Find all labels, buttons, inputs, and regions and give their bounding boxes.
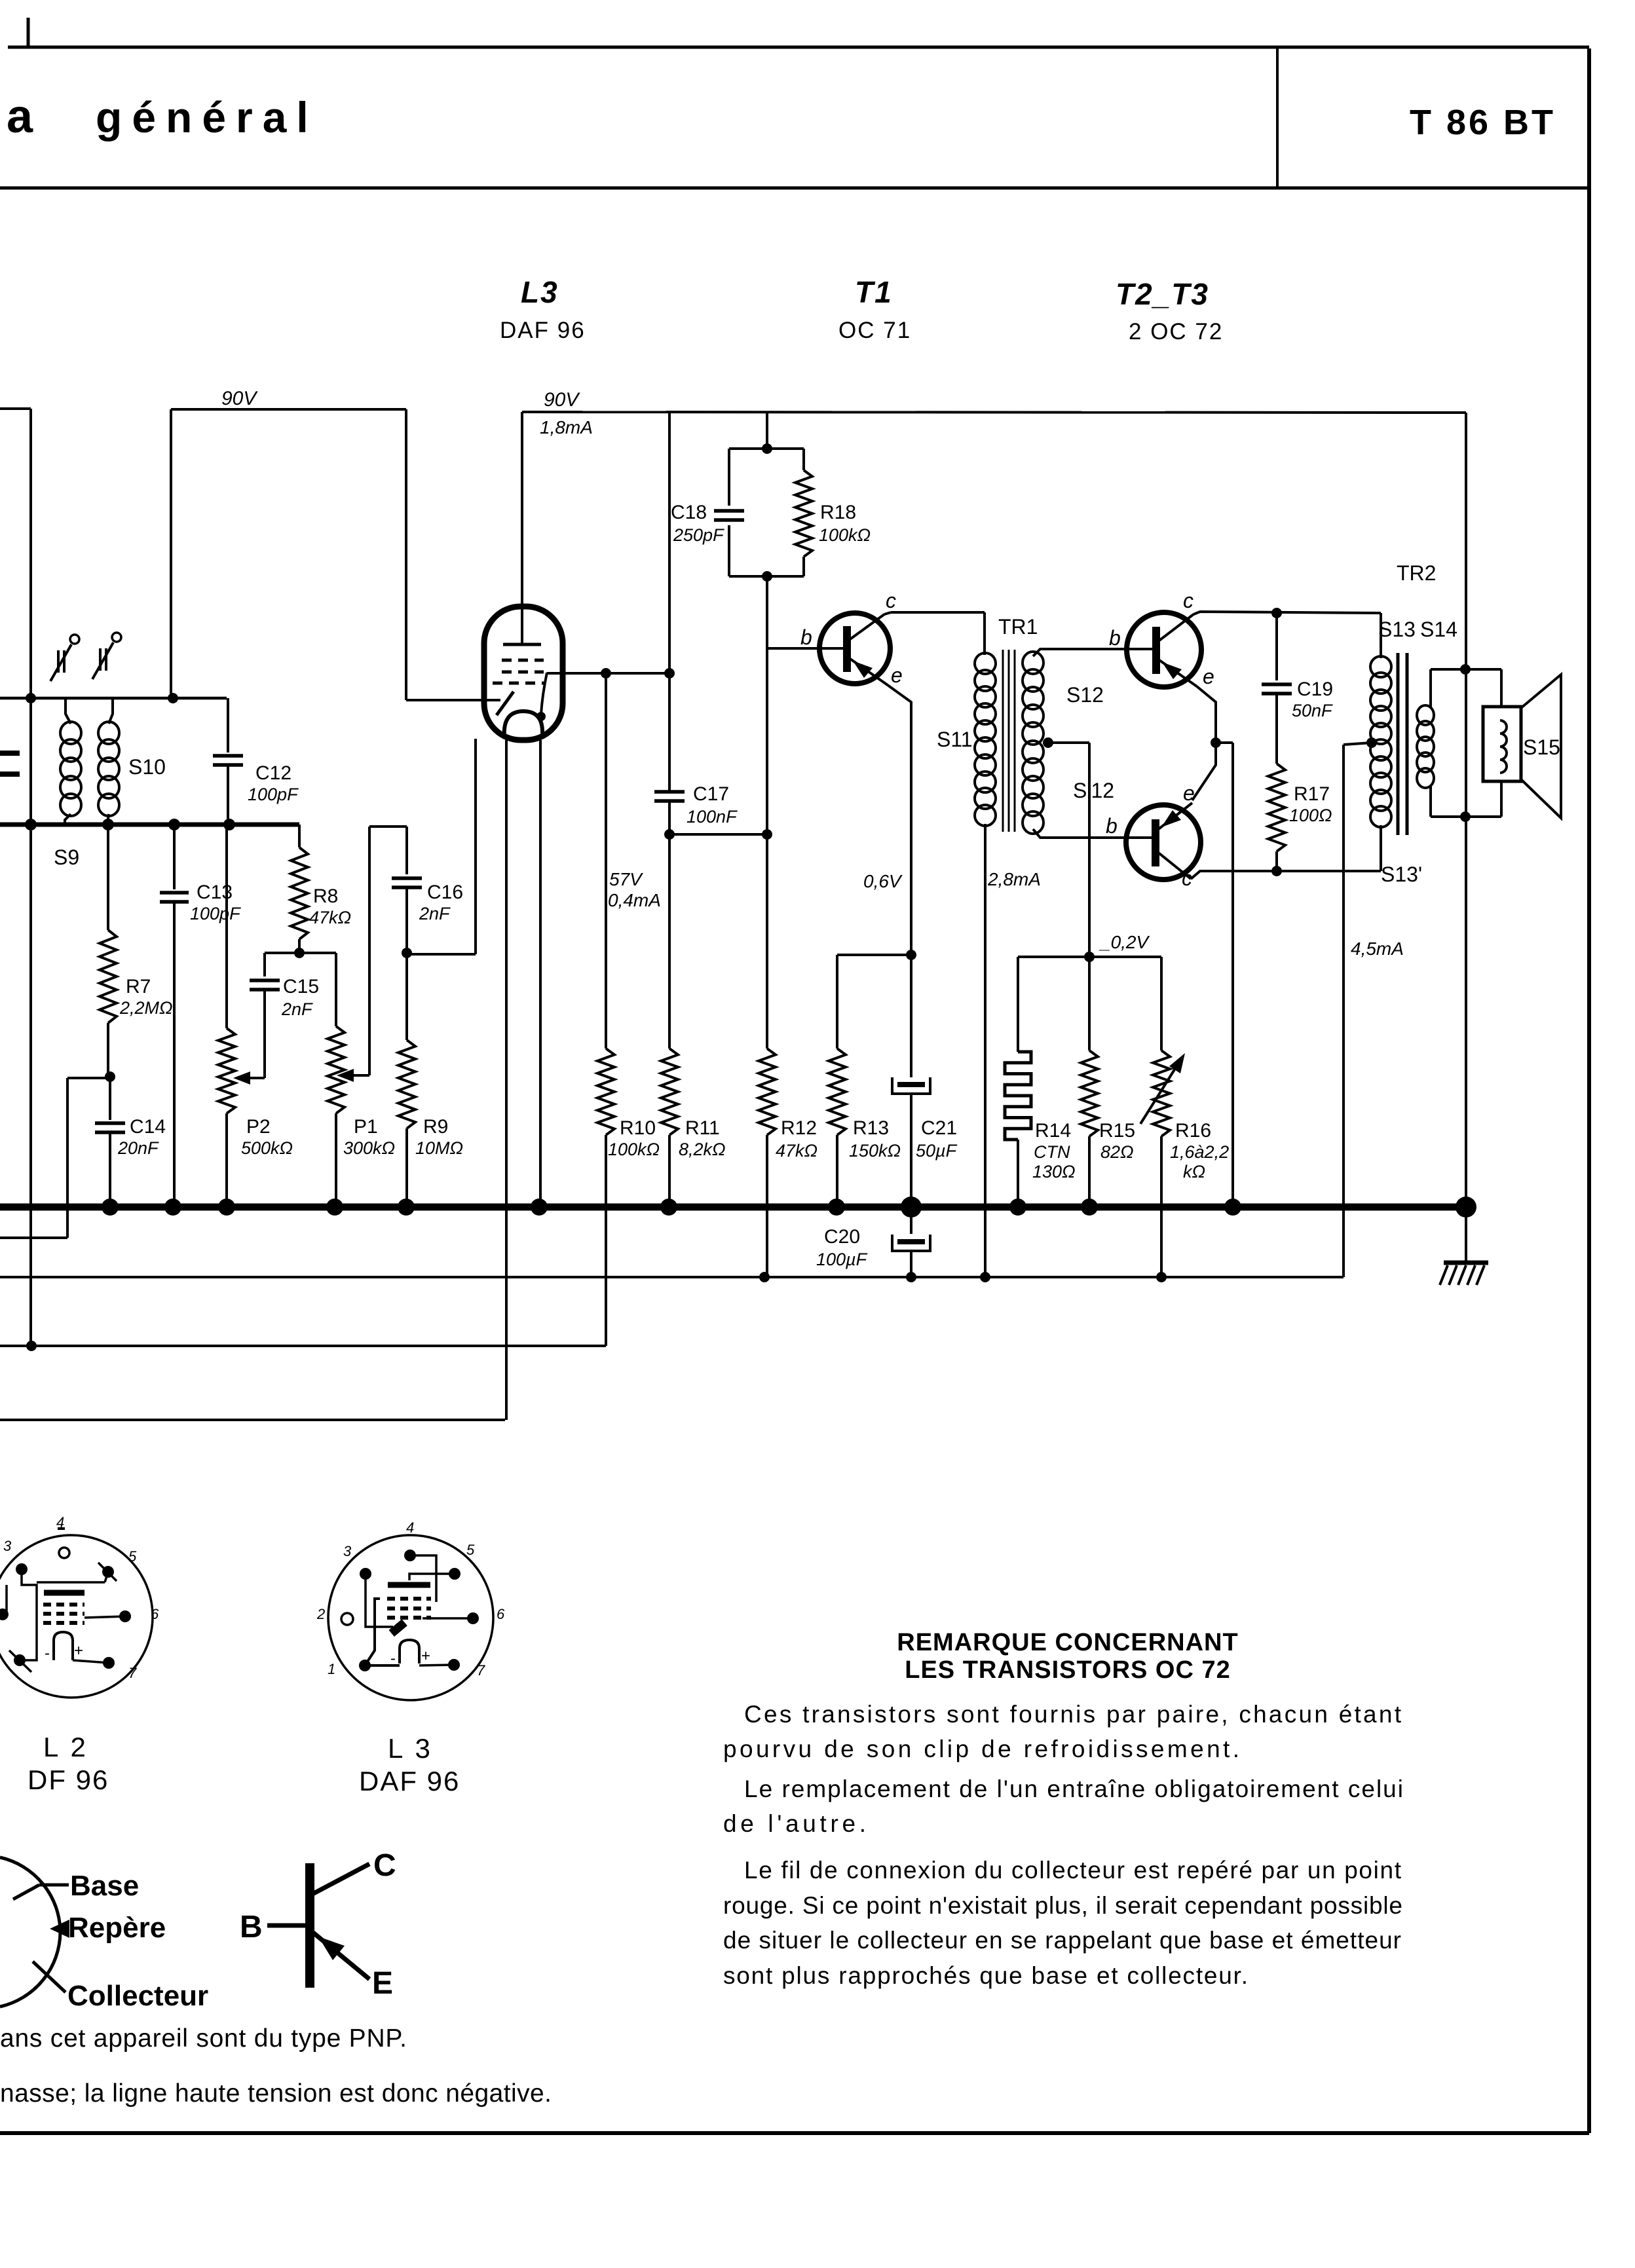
- svg-text:C12: C12: [255, 762, 291, 784]
- svg-text:OC 71: OC 71: [838, 318, 911, 343]
- svg-text:DAF 96: DAF 96: [500, 318, 586, 343]
- svg-text:R9: R9: [423, 1116, 448, 1138]
- svg-text:c: c: [1183, 589, 1193, 612]
- svg-text:TR1: TR1: [998, 615, 1038, 639]
- svg-text:47kΩ: 47kΩ: [776, 1141, 817, 1161]
- svg-text:4: 4: [56, 1514, 64, 1531]
- svg-text:Le fil de connexion du collect: Le fil de connexion du collecteur est re…: [744, 1857, 1402, 1884]
- svg-text:T 86 BT: T 86 BT: [1410, 103, 1556, 142]
- svg-text:1,8mA: 1,8mA: [540, 417, 593, 437]
- svg-text:0,6V: 0,6V: [863, 871, 903, 891]
- svg-text:2nF: 2nF: [419, 904, 451, 923]
- svg-text:90V: 90V: [544, 389, 580, 411]
- svg-text:-: -: [45, 1645, 50, 1662]
- svg-text:8,2kΩ: 8,2kΩ: [679, 1140, 726, 1159]
- svg-text:e: e: [891, 663, 903, 687]
- svg-text:250pF: 250pF: [673, 525, 724, 545]
- svg-text:nasse; la ligne haute tension: nasse; la ligne haute tension est donc n…: [0, 2079, 552, 2108]
- svg-text:100pF: 100pF: [190, 904, 241, 923]
- svg-text:DF 96: DF 96: [28, 1764, 109, 1795]
- svg-text:100µF: 100µF: [816, 1250, 868, 1269]
- svg-text:R11: R11: [685, 1117, 720, 1139]
- svg-text:TR2: TR2: [1397, 561, 1436, 585]
- svg-text:b: b: [800, 625, 812, 649]
- svg-text:Ces transistors sont fournis p: Ces transistors sont fournis par paire, …: [744, 1701, 1402, 1728]
- svg-text:P2: P2: [246, 1116, 271, 1138]
- svg-text:c: c: [1182, 866, 1192, 890]
- svg-text:L3: L3: [521, 275, 559, 309]
- svg-text:Collecteur: Collecteur: [67, 1980, 208, 2012]
- svg-text:100pF: 100pF: [248, 785, 299, 804]
- svg-text:S9: S9: [54, 846, 79, 869]
- svg-text:C: C: [373, 1848, 396, 1883]
- svg-text:b: b: [1109, 626, 1121, 650]
- svg-text:7: 7: [477, 1662, 485, 1679]
- svg-text:150kΩ: 150kΩ: [849, 1141, 901, 1161]
- svg-text:3: 3: [343, 1543, 352, 1559]
- svg-text:R14: R14: [1035, 1120, 1071, 1142]
- svg-text:90V: 90V: [221, 388, 258, 409]
- svg-text:7: 7: [128, 1665, 137, 1681]
- svg-text:S13: S13: [1378, 618, 1416, 641]
- svg-text:kΩ: kΩ: [1183, 1162, 1205, 1181]
- svg-text:R16: R16: [1175, 1120, 1211, 1142]
- svg-text:DAF 96: DAF 96: [359, 1766, 460, 1796]
- svg-text:1,6à2,2: 1,6à2,2: [1170, 1142, 1229, 1162]
- svg-text:2nF: 2nF: [281, 999, 313, 1019]
- svg-text:REMARQUE CONCERNANT: REMARQUE CONCERNANT: [897, 1629, 1238, 1656]
- svg-text:2,8mA: 2,8mA: [987, 869, 1041, 889]
- svg-text:S13': S13': [1381, 863, 1422, 886]
- svg-text:2,2MΩ: 2,2MΩ: [119, 998, 173, 1018]
- svg-text:57V: 57V: [609, 869, 643, 889]
- svg-text:de situer le collecteur en se: de situer le collecteur en se rappelant …: [723, 1927, 1401, 1954]
- svg-text:a: a: [7, 90, 33, 143]
- svg-text:S'12: S'12: [1073, 779, 1114, 802]
- svg-text:e: e: [1203, 665, 1214, 688]
- svg-text:500kΩ: 500kΩ: [241, 1138, 293, 1158]
- svg-text:C18: C18: [671, 502, 707, 523]
- svg-text:CTN: CTN: [1034, 1142, 1070, 1162]
- svg-text:R18: R18: [820, 502, 856, 523]
- svg-text:S14: S14: [1420, 618, 1457, 641]
- svg-text:82Ω: 82Ω: [1100, 1142, 1134, 1162]
- svg-text:R17: R17: [1294, 783, 1330, 805]
- svg-text:pourvu de son clip de refroidi: pourvu de son clip de refroidissement.: [723, 1736, 1239, 1762]
- svg-text:C16: C16: [427, 882, 463, 903]
- svg-text:ans cet appareil sont du type: ans cet appareil sont du type PNP.: [0, 2024, 407, 2053]
- svg-text:2 OC 72: 2 OC 72: [1129, 319, 1223, 344]
- svg-text:4,5mA: 4,5mA: [1351, 939, 1404, 959]
- svg-text:S15: S15: [1523, 735, 1560, 759]
- svg-text:e: e: [1183, 781, 1195, 805]
- svg-text:L 3: L 3: [388, 1733, 433, 1764]
- svg-text:P1: P1: [354, 1116, 378, 1138]
- svg-text:130Ω: 130Ω: [1032, 1162, 1076, 1181]
- svg-text:R13: R13: [853, 1117, 889, 1139]
- svg-text:+: +: [421, 1647, 430, 1665]
- svg-text:+: +: [74, 1642, 83, 1660]
- svg-text:S12: S12: [1066, 683, 1104, 707]
- svg-text:de l'autre.: de l'autre.: [723, 1810, 866, 1837]
- svg-text:R10: R10: [620, 1117, 656, 1139]
- svg-text:20nF: 20nF: [117, 1138, 159, 1158]
- svg-text:S10: S10: [128, 755, 166, 779]
- svg-text:C20: C20: [824, 1226, 860, 1248]
- svg-text:100Ω: 100Ω: [1289, 806, 1332, 825]
- svg-text:100nF: 100nF: [686, 807, 738, 827]
- svg-text:50µF: 50µF: [916, 1141, 958, 1161]
- svg-text:C15: C15: [283, 976, 319, 997]
- svg-text:3: 3: [3, 1538, 12, 1554]
- svg-text:300kΩ: 300kΩ: [343, 1138, 395, 1158]
- svg-text:10MΩ: 10MΩ: [415, 1138, 463, 1158]
- svg-text:T1: T1: [855, 275, 893, 309]
- svg-text:6: 6: [151, 1606, 159, 1622]
- svg-text:0,4mA: 0,4mA: [608, 890, 661, 910]
- svg-text:C14: C14: [130, 1116, 166, 1138]
- svg-text:général: général: [96, 93, 318, 141]
- svg-text:rouge. Si ce point n'existait: rouge. Si ce point n'existait plus, il s…: [723, 1892, 1402, 1919]
- svg-text:R7: R7: [126, 976, 151, 997]
- svg-text:C19: C19: [1297, 679, 1333, 700]
- svg-text:Le remplacement de l'un entraî: Le remplacement de l'un entraîne obligat…: [744, 1775, 1403, 1802]
- svg-text:6: 6: [497, 1606, 505, 1622]
- svg-text:LES TRANSISTORS OC 72: LES TRANSISTORS OC 72: [905, 1656, 1231, 1684]
- svg-text:B: B: [240, 1910, 263, 1944]
- svg-text:4: 4: [406, 1519, 414, 1536]
- svg-text:C21: C21: [921, 1117, 957, 1139]
- svg-text:100kΩ: 100kΩ: [819, 525, 871, 545]
- svg-text:T2_T3: T2_T3: [1116, 277, 1209, 311]
- svg-text:R12: R12: [781, 1117, 817, 1139]
- svg-text:100kΩ: 100kΩ: [608, 1140, 660, 1159]
- svg-text:1: 1: [328, 1661, 335, 1677]
- svg-text:5: 5: [128, 1548, 137, 1565]
- svg-text:C17: C17: [693, 783, 729, 805]
- svg-text:Repère: Repère: [68, 1912, 166, 1944]
- svg-text:c: c: [886, 589, 896, 612]
- svg-text:b: b: [1106, 814, 1118, 838]
- svg-text:R15: R15: [1099, 1120, 1135, 1142]
- svg-text:R8: R8: [313, 885, 338, 907]
- svg-text:S11: S11: [937, 728, 973, 751]
- svg-text:L 2: L 2: [43, 1732, 88, 1762]
- svg-text:2: 2: [316, 1606, 325, 1622]
- svg-text:Base: Base: [70, 1870, 139, 1902]
- svg-text:47kΩ: 47kΩ: [309, 908, 351, 927]
- svg-text:_0,2V: _0,2V: [1099, 932, 1150, 952]
- svg-text:E: E: [372, 1966, 393, 2001]
- svg-text:5: 5: [466, 1542, 475, 1558]
- svg-text:50nF: 50nF: [1292, 701, 1333, 720]
